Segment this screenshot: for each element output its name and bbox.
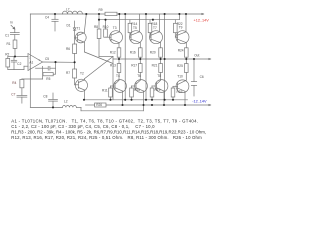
wire diagonal T1 emitter to right	[85, 52, 114, 64]
arrow +12V	[202, 13, 205, 15]
resistor R15	[130, 86, 134, 100]
wire left edge vertical	[29, 14, 31, 107]
resistor R1	[13, 40, 17, 48]
wire lower rail A	[84, 99, 188, 101]
wire mid rail left	[86, 104, 95, 106]
svg-text:T2: T2	[80, 71, 84, 75]
svg-text:R11: R11	[102, 88, 108, 92]
svg-text:T9: T9	[179, 26, 183, 30]
svg-text:L2: L2	[64, 99, 68, 103]
svg-text:R9: R9	[99, 8, 103, 12]
transistor T9	[176, 14, 189, 48]
capacitor C7	[17, 88, 27, 103]
svg-text:R12, R13, R16, R17, R20, R21,: R12, R13, R16, R17, R20, R21, R24, R25 -…	[11, 135, 202, 140]
svg-text:R6: R6	[66, 47, 70, 51]
svg-text:C7: C7	[11, 93, 15, 97]
wire base rail upper bank	[99, 19, 179, 21]
resistor R26	[95, 103, 106, 107]
svg-text:+12..14V: +12..14V	[194, 19, 210, 23]
wire output rail	[112, 57, 114, 64]
transistor T4	[111, 80, 127, 105]
resistor R5	[43, 66, 56, 79]
lower bank transistors	[109, 59, 197, 105]
svg-text:T1: T1	[77, 26, 81, 30]
wire opamp output	[43, 61, 75, 63]
svg-text:C1: C1	[5, 33, 9, 37]
transistor T2	[75, 79, 88, 100]
svg-text:L7: L7	[66, 8, 70, 12]
resistor R7	[73, 62, 77, 85]
svg-text:In: In	[10, 21, 13, 25]
resistor R10	[104, 20, 111, 38]
svg-text:R17: R17	[131, 64, 137, 68]
capacitor C2	[11, 57, 17, 70]
svg-text:R21: R21	[152, 64, 158, 68]
capacitor C6	[191, 59, 196, 96]
resistor R14	[128, 20, 132, 38]
diode D1	[73, 21, 76, 38]
transistor T3	[110, 14, 123, 48]
svg-text:R20: R20	[150, 51, 156, 55]
svg-text:R8: R8	[94, 25, 98, 29]
capacitor C8	[49, 93, 58, 107]
svg-text:C6: C6	[200, 75, 204, 79]
wire top rail right	[117, 13, 203, 15]
wire jog up to mid rail	[142, 105, 144, 111]
wire top rail to base rail	[98, 14, 100, 20]
resistor R8	[97, 20, 113, 57]
svg-text:C2: C2	[17, 62, 21, 66]
svg-text:2: 2	[29, 58, 31, 60]
capacitor C1	[10, 25, 19, 40]
wire after L2	[76, 106, 81, 108]
resistor R19	[150, 86, 154, 100]
inductor L7	[62, 11, 82, 14]
wire diagonal T2 collector to right	[84, 57, 113, 79]
svg-text:D1: D1	[67, 23, 71, 27]
upper bank transistors	[104, 14, 189, 59]
svg-text:R1,R3 - 200, R2 - 39k, R4 - 10: R1,R3 - 200, R2 - 39k, R4 - 100k, R5 - 2…	[11, 130, 206, 135]
resistor R18	[148, 20, 152, 38]
transistor T8	[152, 80, 168, 105]
junction dots	[14, 13, 195, 109]
resistor R11	[109, 86, 113, 100]
svg-text:R16: R16	[130, 51, 136, 55]
resistor R12	[117, 48, 121, 59]
wire low return line	[81, 110, 143, 112]
wire +input	[24, 66, 28, 69]
resistor R21	[159, 59, 163, 80]
svg-text:T7: T7	[153, 26, 157, 30]
resistor R13	[117, 59, 121, 80]
transistor T10	[173, 80, 189, 105]
svg-text:A1: A1	[29, 60, 33, 64]
resistor R23	[171, 86, 175, 100]
svg-text:T3: T3	[113, 26, 117, 30]
svg-text:R4: R4	[12, 81, 16, 85]
svg-text:T8: T8	[157, 74, 161, 78]
resistor R4	[20, 79, 24, 88]
capacitor C4	[52, 14, 58, 31]
svg-text:R2: R2	[5, 52, 9, 56]
arrow Out	[209, 58, 212, 60]
op-amp A1	[28, 54, 43, 71]
capacitor C3	[36, 62, 56, 74]
svg-text:R25: R25	[177, 64, 183, 68]
wire mid rail right	[106, 104, 209, 106]
wire column vertical 3	[164, 14, 166, 100]
svg-text:T10: T10	[177, 75, 183, 79]
transistor T5	[130, 14, 143, 48]
wire top rail left	[30, 13, 105, 15]
wire ground bus	[8, 69, 24, 71]
svg-text:C4: C4	[45, 15, 49, 19]
transistor T6	[132, 80, 148, 105]
resistor R16	[139, 48, 143, 59]
svg-text:A1 - TL071CN, TL071CN. T1, T: A1 - TL071CN, TL071CN. T1, T4, T6, T8, T…	[11, 119, 198, 124]
resistor R24	[185, 48, 189, 59]
svg-text:T4: T4	[116, 74, 120, 78]
bottom text block	[11, 119, 206, 141]
wire bottom rail left	[30, 106, 62, 108]
wire R1 to node	[14, 48, 16, 56]
wire column vertical 1	[124, 14, 126, 100]
svg-text:R23: R23	[177, 90, 183, 94]
resistor R22	[174, 20, 178, 38]
transistor T1	[75, 14, 87, 52]
svg-text:R19: R19	[155, 88, 161, 92]
wire ground line low	[22, 78, 43, 80]
svg-text:C8: C8	[43, 94, 47, 98]
svg-text:T6: T6	[137, 74, 141, 78]
svg-text:R24: R24	[178, 48, 184, 52]
svg-text:R5: R5	[46, 77, 50, 81]
svg-text:T5: T5	[133, 26, 137, 30]
resistor R17	[139, 59, 143, 80]
resistor R9	[105, 12, 117, 15]
wire node to opamp	[15, 56, 28, 58]
svg-text:C1 - 2,2, C2 - 100 pF, C3 - 33: C1 - 2,2, C2 - 100 pF, C3 - 330 pF, C4, …	[11, 124, 155, 129]
svg-text:R13: R13	[110, 64, 116, 68]
resistor R6	[73, 38, 77, 62]
resistor R2	[6, 57, 15, 70]
svg-text:R12: R12	[110, 51, 116, 55]
wire lower base feed	[112, 64, 114, 100]
arrow -12V	[209, 104, 212, 106]
svg-text:R7: R7	[66, 71, 70, 75]
transistor T7	[150, 14, 163, 48]
svg-text:R15: R15	[134, 88, 140, 92]
svg-text:R1: R1	[7, 42, 11, 46]
svg-text:R10: R10	[103, 25, 109, 29]
resistor R25	[185, 59, 189, 80]
svg-text:C5: C5	[45, 57, 49, 61]
wire column vertical 2	[145, 14, 147, 100]
svg-text:-12..14V: -12..14V	[192, 99, 207, 103]
svg-text:R26: R26	[96, 103, 102, 107]
wire jog down	[80, 107, 82, 110]
svg-text:Out: Out	[194, 53, 199, 57]
wire column vertical 4	[178, 14, 180, 20]
arrows	[202, 13, 212, 106]
inductor L2	[62, 106, 76, 108]
resistor R20	[159, 48, 163, 59]
